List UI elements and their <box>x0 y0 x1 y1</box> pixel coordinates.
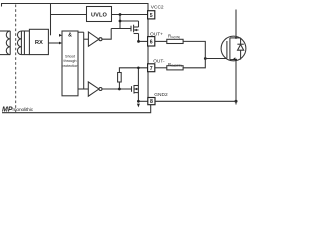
wire UVLO output VCC2 rail to pin 5 <box>112 14 148 16</box>
wire IC top rail VCC side <box>2 4 149 11</box>
pin 5 box <box>148 11 155 19</box>
svg-text:OUT+: OUT+ <box>150 32 163 38</box>
wire emitter stub <box>235 101 237 104</box>
svg-text:OUT-: OUT- <box>153 58 165 64</box>
node junction dots <box>118 13 238 103</box>
resistor RG(OFF) <box>155 59 206 70</box>
wire OUT+ line to pin 6 <box>139 40 148 42</box>
wire rail tap to UVLO and AND enable <box>50 4 52 36</box>
svg-text:&: & <box>68 33 72 39</box>
svg-text:GND2: GND2 <box>154 92 168 98</box>
svg-text:8: 8 <box>150 99 153 105</box>
wire AND output split to both inverters <box>78 32 88 89</box>
arrow current direction marker <box>137 104 140 108</box>
wire RX output to AND gate <box>48 42 60 44</box>
AND / shoot-through protection block <box>62 31 78 96</box>
svg-text:VCC2: VCC2 <box>151 5 164 11</box>
op-amp U3 lower inverter <box>78 82 132 96</box>
svg-text:RG(ON): RG(ON) <box>168 33 180 39</box>
watermark logo <box>2 107 34 114</box>
op-amp U2 top inverter <box>88 29 111 47</box>
svg-text:protection: protection <box>62 64 79 68</box>
input arrowheads into AND block <box>59 34 62 45</box>
resistor RG(ON) <box>155 39 206 58</box>
wire GND2 internal to pin 8 <box>138 100 147 102</box>
IC right edge pin chain <box>147 19 149 98</box>
IGBT Q3 <box>221 36 246 61</box>
svg-text:through: through <box>64 59 77 63</box>
diode D1 freewheeling <box>236 38 244 60</box>
wire IGBT emitter lead <box>235 61 237 101</box>
wire IGBT collector lead <box>235 10 237 37</box>
svg-text:Shoot: Shoot <box>65 55 76 59</box>
svg-text:monolithic: monolithic <box>13 107 34 113</box>
wire gate drive to IGBT <box>205 58 227 60</box>
wire VCC2 to PMOS pull-up <box>120 15 139 29</box>
transistor Q2 lower output MOSFET <box>132 68 139 102</box>
svg-text:RG(OFF): RG(OFF) <box>168 62 182 68</box>
UVLO block <box>87 7 112 22</box>
resistor R1 gate pulldown <box>118 68 148 89</box>
wire IC bottom rail <box>2 105 151 113</box>
svg-text:UVLO: UVLO <box>91 12 107 18</box>
wire GND2 line pin8 to emitter <box>155 100 236 102</box>
isolation barrier dashed line <box>15 5 17 113</box>
svg-text:RX: RX <box>35 40 43 46</box>
svg-text:MP: MP <box>2 107 13 114</box>
transformer T1 secondary winding <box>17 31 29 55</box>
svg-text:6: 6 <box>150 39 153 45</box>
pin 6 box <box>148 37 155 46</box>
pin 7 box <box>148 64 155 72</box>
pin 8 box <box>148 98 155 105</box>
wire PMOS gate line <box>111 28 131 30</box>
svg-text:5: 5 <box>150 13 153 19</box>
transformer T1 primary winding <box>0 31 10 55</box>
svg-text:7: 7 <box>150 66 153 72</box>
transistor Q1 upper output MOSFET <box>131 25 139 42</box>
RX block <box>29 29 48 54</box>
